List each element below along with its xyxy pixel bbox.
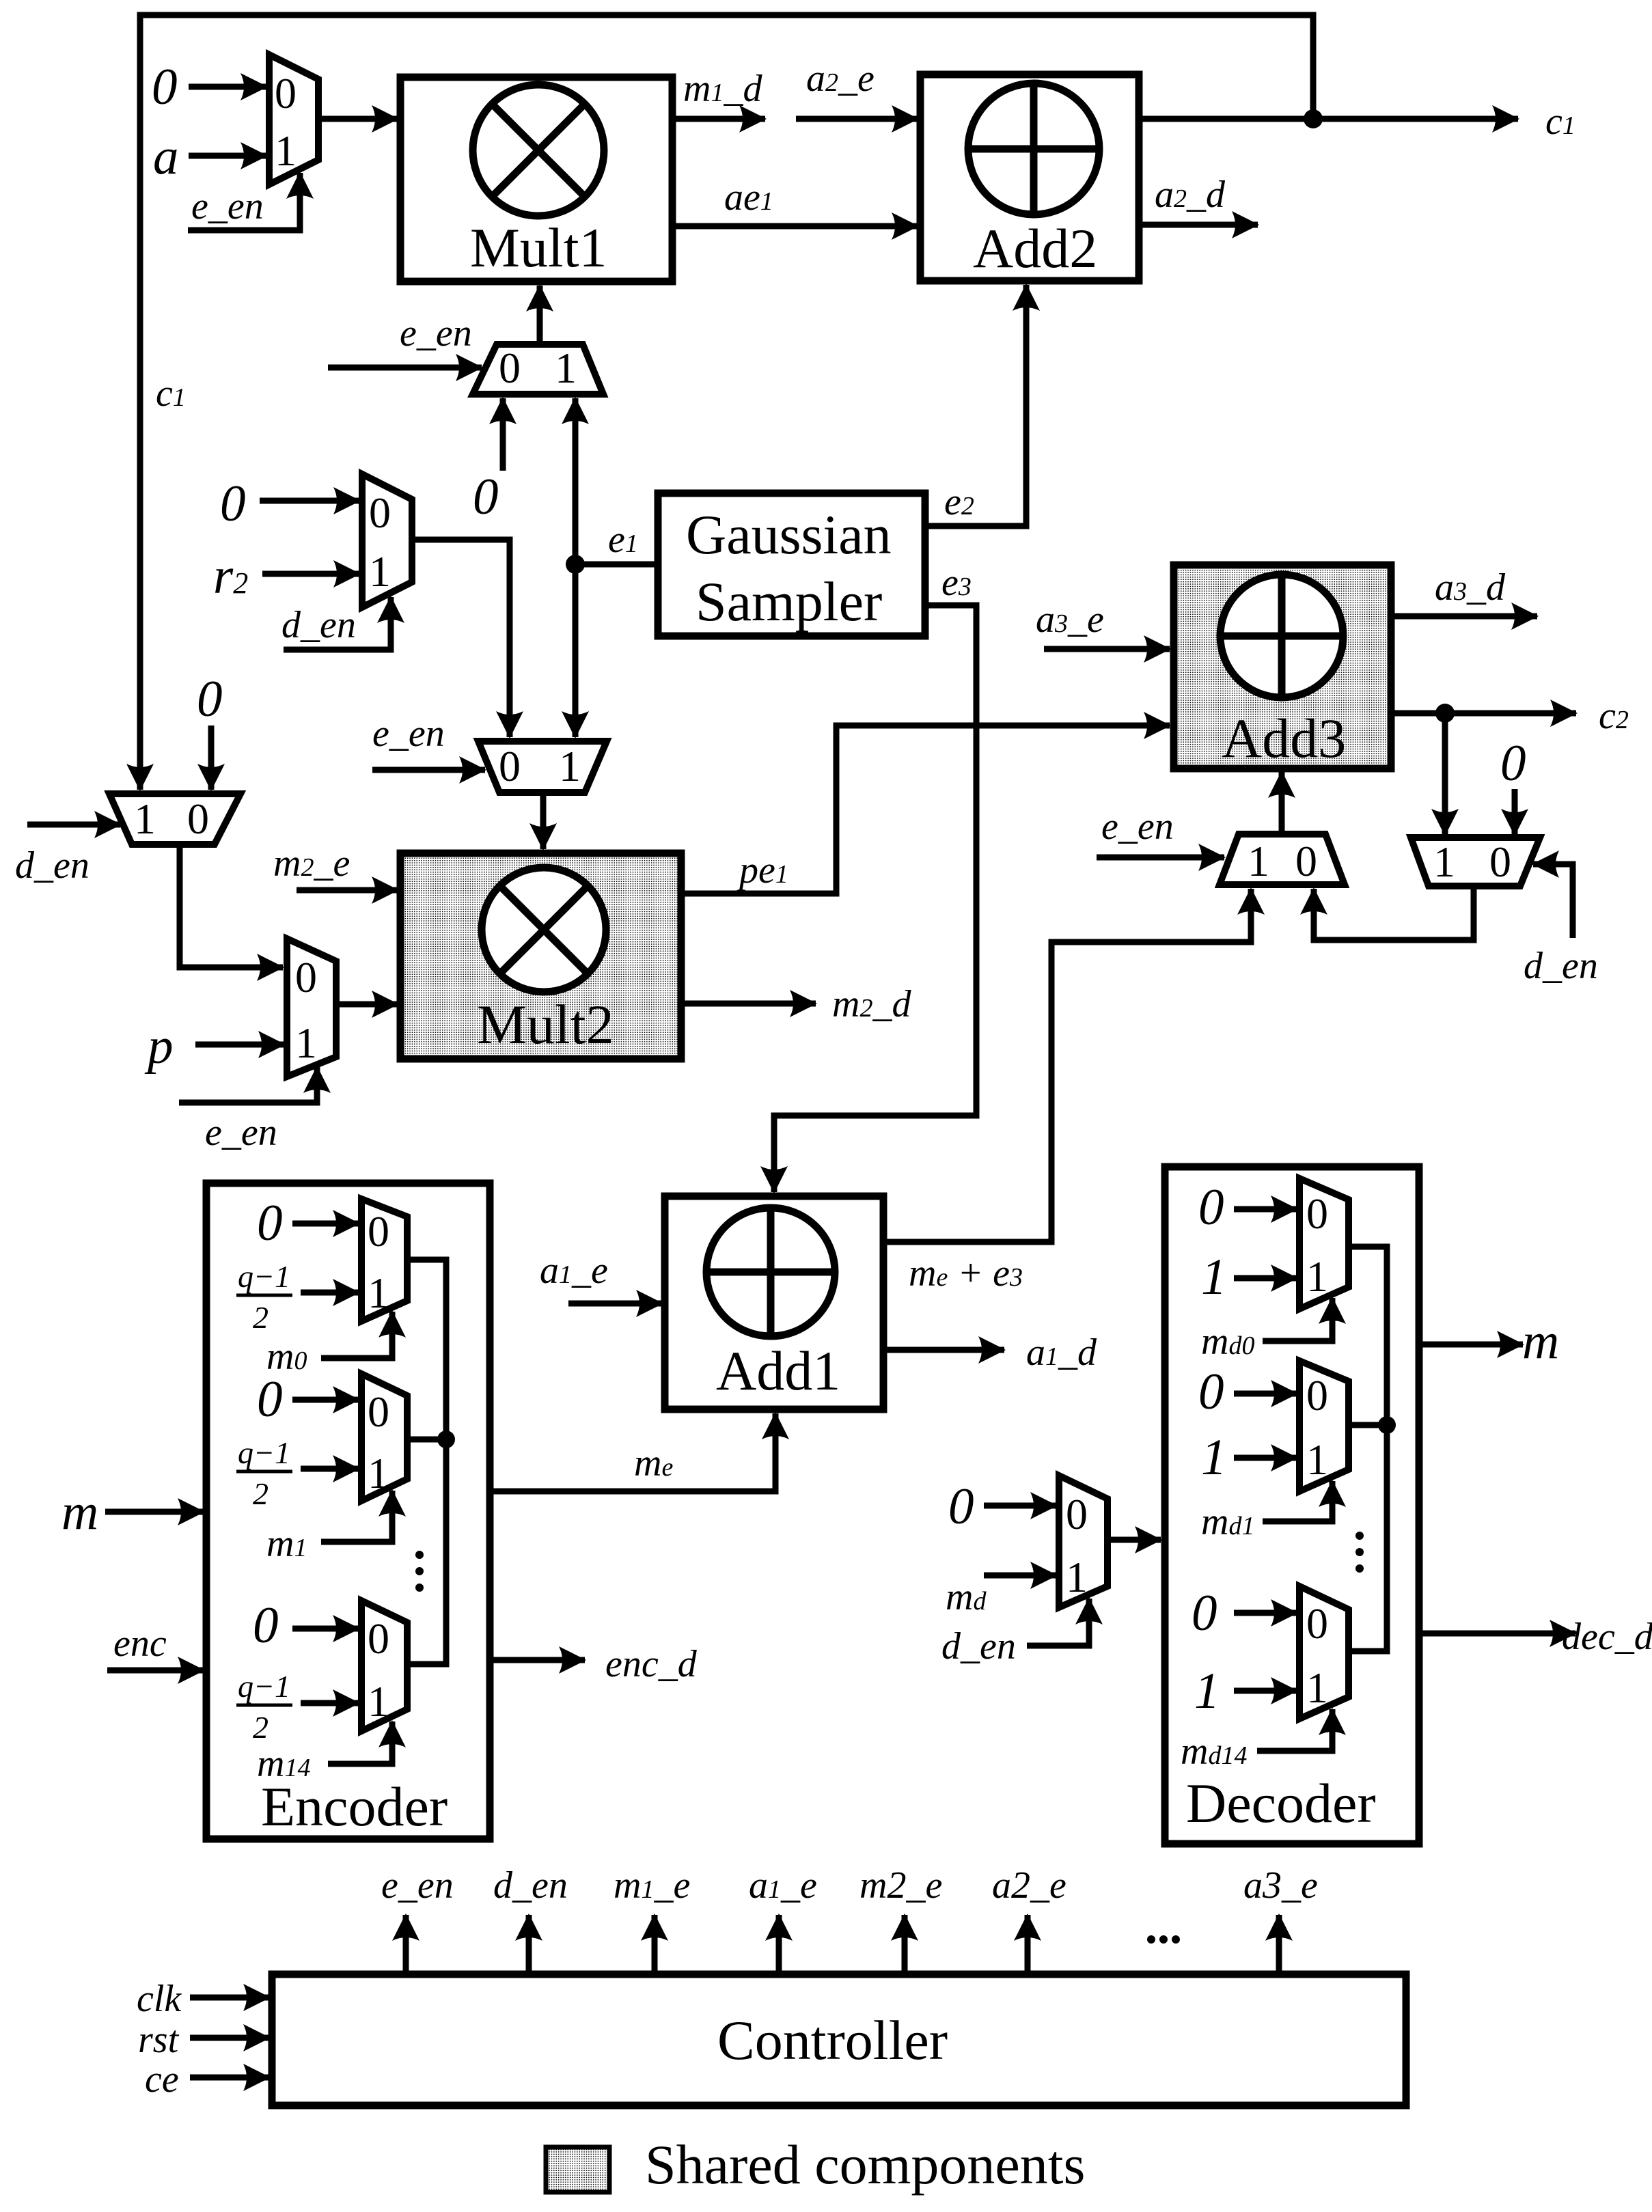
svg-text:q−1: q−1: [238, 1259, 290, 1294]
wire M4 output to M6: [180, 844, 283, 967]
mux M4: [109, 794, 240, 844]
wire c1 into M4 (arrowhead): [137, 751, 143, 790]
svg-text:e_en: e_en: [381, 1864, 454, 1907]
wire a2_e ctrl out: [1025, 1915, 1031, 1974]
svg-text:1: 1: [368, 1269, 389, 1317]
svg-text:q−1: q−1: [238, 1435, 290, 1470]
wire enc to Encoder: [107, 1668, 204, 1674]
wire 0 to M1: [189, 84, 266, 90]
svg-text:e_en: e_en: [400, 312, 472, 355]
wire e1 to Gaussian Sampler: [575, 562, 658, 568]
wire m output Decoder: [1419, 1342, 1523, 1348]
wire 0 to E1: [292, 1221, 359, 1227]
svg-text:0: 0: [295, 953, 317, 1001]
wire 0 to D1: [1234, 1206, 1297, 1213]
svg-text:1: 1: [368, 1449, 389, 1497]
wire pe1 Mult2 to Add3: [681, 725, 1170, 894]
svg-text:0: 0: [275, 69, 297, 117]
svg-text:0: 0: [368, 1387, 389, 1436]
svg-text:0: 0: [368, 1207, 389, 1256]
svg-text:Mult1: Mult1: [470, 217, 607, 279]
svg-text:0: 0: [152, 59, 178, 115]
wire M5 to Mult2: [540, 792, 547, 849]
wire 0 to D3: [1234, 1610, 1297, 1616]
wire a3_e to Add3: [1044, 646, 1170, 652]
svg-text:0: 0: [197, 671, 223, 728]
wire M1 to Mult1: [318, 116, 398, 122]
wire 0 to E3: [292, 1626, 359, 1632]
wire c1 output: [1139, 116, 1518, 122]
wire c2 junction down to M8: [1442, 713, 1448, 835]
wire e3 to Add1: [774, 605, 976, 1192]
svg-text:d_en: d_en: [941, 1625, 1016, 1668]
svg-text:1: 1: [1066, 1553, 1088, 1601]
svg-text:0: 0: [1306, 1189, 1328, 1238]
wire e1 vertical M2/M5: [573, 398, 579, 564]
wire 0 to E2: [292, 1397, 359, 1403]
block Controller: [272, 1974, 1406, 2105]
wire D1 output: [1349, 1247, 1387, 1651]
svg-text:Decoder: Decoder: [1186, 1772, 1376, 1834]
svg-text:1: 1: [559, 742, 581, 790]
wire d_en ctrl out: [526, 1915, 532, 1974]
wire md to M9: [984, 1573, 1056, 1579]
dots ctrl: [1147, 1935, 1155, 1944]
node e1 junction: [566, 555, 585, 574]
svg-text:1: 1: [295, 1019, 317, 1067]
svg-text:Sampler: Sampler: [696, 570, 882, 633]
wire a3_e ctrl out: [1276, 1915, 1282, 1974]
svg-text:0: 0: [369, 488, 391, 537]
svg-text:0: 0: [1306, 1371, 1328, 1420]
svg-text:rst: rst: [138, 2019, 180, 2061]
wire e2 to Add2: [925, 285, 1026, 526]
wire a1_e to Add1: [568, 1301, 662, 1307]
wire 1 to D3: [1234, 1688, 1297, 1694]
svg-text:Controller: Controller: [717, 2009, 948, 2071]
svg-text:a2_d: a2_d: [1155, 174, 1226, 216]
wire a2_e input: [796, 116, 918, 122]
svg-text:0: 0: [1066, 1490, 1088, 1538]
wire e_en to M6 select: [179, 1067, 317, 1103]
wire m0 to E1 select: [321, 1312, 392, 1358]
svg-text:0: 0: [948, 1478, 974, 1535]
svg-text:1: 1: [1201, 1429, 1227, 1486]
svg-text:e_en: e_en: [191, 185, 264, 227]
wire a to M1: [189, 153, 266, 159]
svg-text:q−1: q−1: [238, 1669, 290, 1704]
wire dec_d output: [1419, 1631, 1575, 1637]
wire c1 feedback top: [140, 15, 1313, 787]
wire e_en to M1 select: [188, 173, 300, 230]
wire d_en to M4: [27, 822, 120, 828]
wire d_en to M8 select: [1533, 864, 1573, 938]
wire 0 to M2: [500, 398, 506, 471]
wire M2 to Mult1: [537, 286, 543, 344]
mux D1: [1299, 1178, 1349, 1309]
block Encoder: [206, 1183, 490, 1839]
block Add1: [665, 1196, 883, 1409]
wire (q-1)/2 to E3: [301, 1700, 359, 1706]
svg-text:0: 0: [1295, 837, 1317, 885]
wire md0 to D1 select: [1263, 1298, 1332, 1341]
wire 1 to D2: [1234, 1455, 1297, 1461]
wire E1 output: [407, 1260, 446, 1664]
svg-text:e_en: e_en: [1101, 805, 1174, 848]
wire (q-1)/2 to E2: [301, 1466, 359, 1472]
mux E1: [361, 1199, 407, 1321]
wire p to M6: [195, 1042, 284, 1048]
wire a1_e ctrl out: [776, 1915, 782, 1974]
wire d_en to M3 select: [284, 597, 391, 650]
wire r2 to M3: [262, 571, 359, 577]
svg-text:a2_e: a2_e: [806, 57, 875, 100]
block Decoder: [1165, 1167, 1419, 1844]
wire m14 to E3 select: [328, 1722, 392, 1764]
svg-text:a1_e: a1_e: [749, 1864, 817, 1907]
wire md1 to D2 select: [1263, 1481, 1332, 1521]
svg-text:a3_d: a3_d: [1435, 566, 1506, 609]
node E2 output junction: [437, 1430, 455, 1448]
wire e_en to M2: [328, 365, 482, 371]
wire e_en to M5: [372, 767, 485, 773]
wire e_en to M7: [1097, 855, 1224, 861]
wire M9 to Decoder: [1107, 1537, 1161, 1543]
svg-text:enc: enc: [113, 1622, 167, 1665]
svg-text:d_en: d_en: [281, 604, 356, 646]
svg-text:1: 1: [1306, 1435, 1328, 1484]
wire M6 to Mult2: [336, 1001, 398, 1008]
svg-text:ce: ce: [145, 2058, 179, 2101]
block Gaussian Sampler: [658, 493, 925, 636]
value label (q-1)/2 (E1): [236, 1259, 292, 1335]
svg-text:0: 0: [499, 344, 521, 392]
wire rst to Controller: [190, 2035, 269, 2041]
wire m2_d output: [681, 1001, 816, 1007]
svg-text:Add2: Add2: [973, 217, 1097, 279]
wire 0 to D2: [1234, 1391, 1297, 1397]
svg-text:Gaussian: Gaussian: [686, 503, 892, 566]
wire D2 output: [1349, 1422, 1387, 1428]
block Mult1: [400, 77, 672, 281]
svg-text:m: m: [61, 1484, 98, 1540]
wire E2 output: [407, 1437, 446, 1443]
svg-text:1: 1: [555, 344, 577, 392]
svg-text:a: a: [153, 128, 179, 185]
svg-text:clk: clk: [137, 1978, 182, 2020]
svg-text:me + e3: me + e3: [909, 1252, 1023, 1295]
wire a3_d output: [1390, 613, 1537, 620]
svg-text:Shared components: Shared components: [645, 2133, 1085, 2196]
svg-text:0: 0: [1306, 1599, 1328, 1648]
wire Add1 output me+e3 to M7: [883, 889, 1251, 1242]
mux E3: [361, 1601, 407, 1731]
svg-text:Add1: Add1: [716, 1340, 840, 1402]
wire (q-1)/2 to E1: [301, 1290, 359, 1296]
svg-text:0: 0: [473, 469, 499, 525]
wire 1 to D1: [1234, 1275, 1297, 1282]
mux D3: [1299, 1586, 1349, 1719]
wire m1_e ctrl out: [652, 1915, 658, 1974]
svg-text:e_en: e_en: [372, 713, 445, 755]
wire 0 to M9: [984, 1503, 1056, 1509]
block Add3 (shared): [1174, 565, 1391, 769]
svg-text:p: p: [144, 1018, 174, 1075]
mux M1: [269, 55, 318, 184]
wire m2_e to Mult2: [297, 887, 398, 894]
wire M7 to Add3: [1279, 772, 1285, 834]
svg-text:2: 2: [253, 1476, 269, 1511]
svg-text:Add3: Add3: [1222, 707, 1346, 769]
mux D2: [1299, 1361, 1349, 1491]
value label (q-1)/2 (E2): [236, 1435, 292, 1511]
value label (q-1)/2 (E3): [236, 1669, 292, 1745]
block Add2: [920, 74, 1139, 281]
svg-text:0: 0: [1198, 1364, 1224, 1420]
mux E2: [361, 1374, 407, 1501]
svg-text:d_en: d_en: [493, 1864, 568, 1907]
svg-text:1: 1: [1194, 1663, 1220, 1719]
svg-text:2: 2: [253, 1710, 269, 1745]
svg-text:Mult2: Mult2: [477, 993, 614, 1055]
wire clk to Controller: [190, 1995, 269, 2001]
wire e_en ctrl out: [403, 1915, 409, 1974]
svg-text:1: 1: [368, 1677, 389, 1726]
wire ce to Controller: [190, 2075, 269, 2081]
mux M5: [478, 741, 607, 792]
wire c2 output: [1390, 710, 1576, 717]
svg-text:1: 1: [1306, 1663, 1328, 1712]
svg-text:d_en: d_en: [1524, 945, 1598, 987]
wire m1_d output: [672, 116, 765, 122]
svg-text:1: 1: [275, 126, 297, 175]
svg-text:0: 0: [187, 794, 209, 843]
svg-text:d_en: d_en: [15, 844, 90, 887]
block Mult2 (shared): [400, 853, 681, 1059]
wire m1 to E2 select: [321, 1491, 392, 1542]
dots encoder: [415, 1551, 424, 1559]
wire md14 to D3 select: [1257, 1709, 1332, 1751]
svg-text:0: 0: [1500, 735, 1526, 792]
wire d_en to M9 select: [1027, 1599, 1089, 1646]
svg-text:m: m: [1522, 1313, 1559, 1370]
svg-text:1: 1: [369, 547, 391, 596]
wire a2_d output: [1139, 222, 1258, 228]
mux M3: [362, 474, 412, 607]
node c2 junction: [1435, 704, 1455, 723]
svg-text:0: 0: [499, 742, 521, 790]
svg-text:a2_e: a2_e: [992, 1864, 1066, 1907]
mux M6: [287, 939, 336, 1077]
svg-text:a1_e: a1_e: [540, 1249, 608, 1292]
svg-text:0: 0: [220, 475, 246, 532]
svg-text:a1_d: a1_d: [1026, 1331, 1097, 1374]
node D2 output junction: [1378, 1416, 1396, 1434]
svg-text:dec_d: dec_d: [1562, 1616, 1652, 1658]
svg-text:0: 0: [1198, 1179, 1224, 1236]
svg-text:0: 0: [368, 1614, 389, 1663]
svg-text:1: 1: [1248, 837, 1269, 885]
svg-text:e_en: e_en: [205, 1111, 277, 1154]
wire 0 stub to M8: [1512, 789, 1518, 835]
mux M2 below Mult1: [473, 344, 603, 394]
wire enc_d output: [490, 1657, 585, 1663]
dots decoder: [1355, 1532, 1364, 1540]
node c1 junction: [1304, 109, 1323, 128]
wire m2_e ctrl out: [902, 1915, 908, 1974]
svg-text:1: 1: [1306, 1252, 1328, 1301]
svg-text:0: 0: [1192, 1585, 1217, 1642]
svg-text:a3_e: a3_e: [1036, 598, 1104, 641]
wire M3 output to M5: [412, 540, 510, 737]
svg-text:1: 1: [1201, 1249, 1227, 1305]
svg-text:1: 1: [134, 794, 156, 843]
wire m to Encoder: [105, 1509, 204, 1515]
wire 0 stub to M4: [208, 725, 215, 790]
wire 0 to M3: [260, 498, 359, 504]
svg-text:0: 0: [1489, 838, 1511, 886]
svg-text:2: 2: [253, 1300, 269, 1335]
wire me Encoder to Add1: [490, 1413, 775, 1491]
wire D3 output: [1349, 1648, 1387, 1655]
mux M8: [1411, 838, 1540, 886]
wire ae1 Mult1 to Add2: [672, 223, 918, 230]
svg-text:m2_e: m2_e: [859, 1864, 942, 1907]
svg-text:0: 0: [257, 1195, 283, 1252]
mux M7: [1220, 834, 1345, 885]
svg-text:a3_e: a3_e: [1243, 1864, 1318, 1907]
svg-text:Encoder: Encoder: [261, 1775, 448, 1838]
wire M8 output to M7: [1314, 886, 1474, 940]
mux M9: [1059, 1476, 1107, 1607]
svg-text:0: 0: [257, 1371, 283, 1428]
wire a1_d output: [883, 1347, 1004, 1353]
svg-text:1: 1: [1433, 838, 1455, 886]
svg-text:0: 0: [253, 1597, 279, 1654]
legend shared components box: [546, 2147, 609, 2192]
svg-text:enc_d: enc_d: [605, 1643, 698, 1685]
